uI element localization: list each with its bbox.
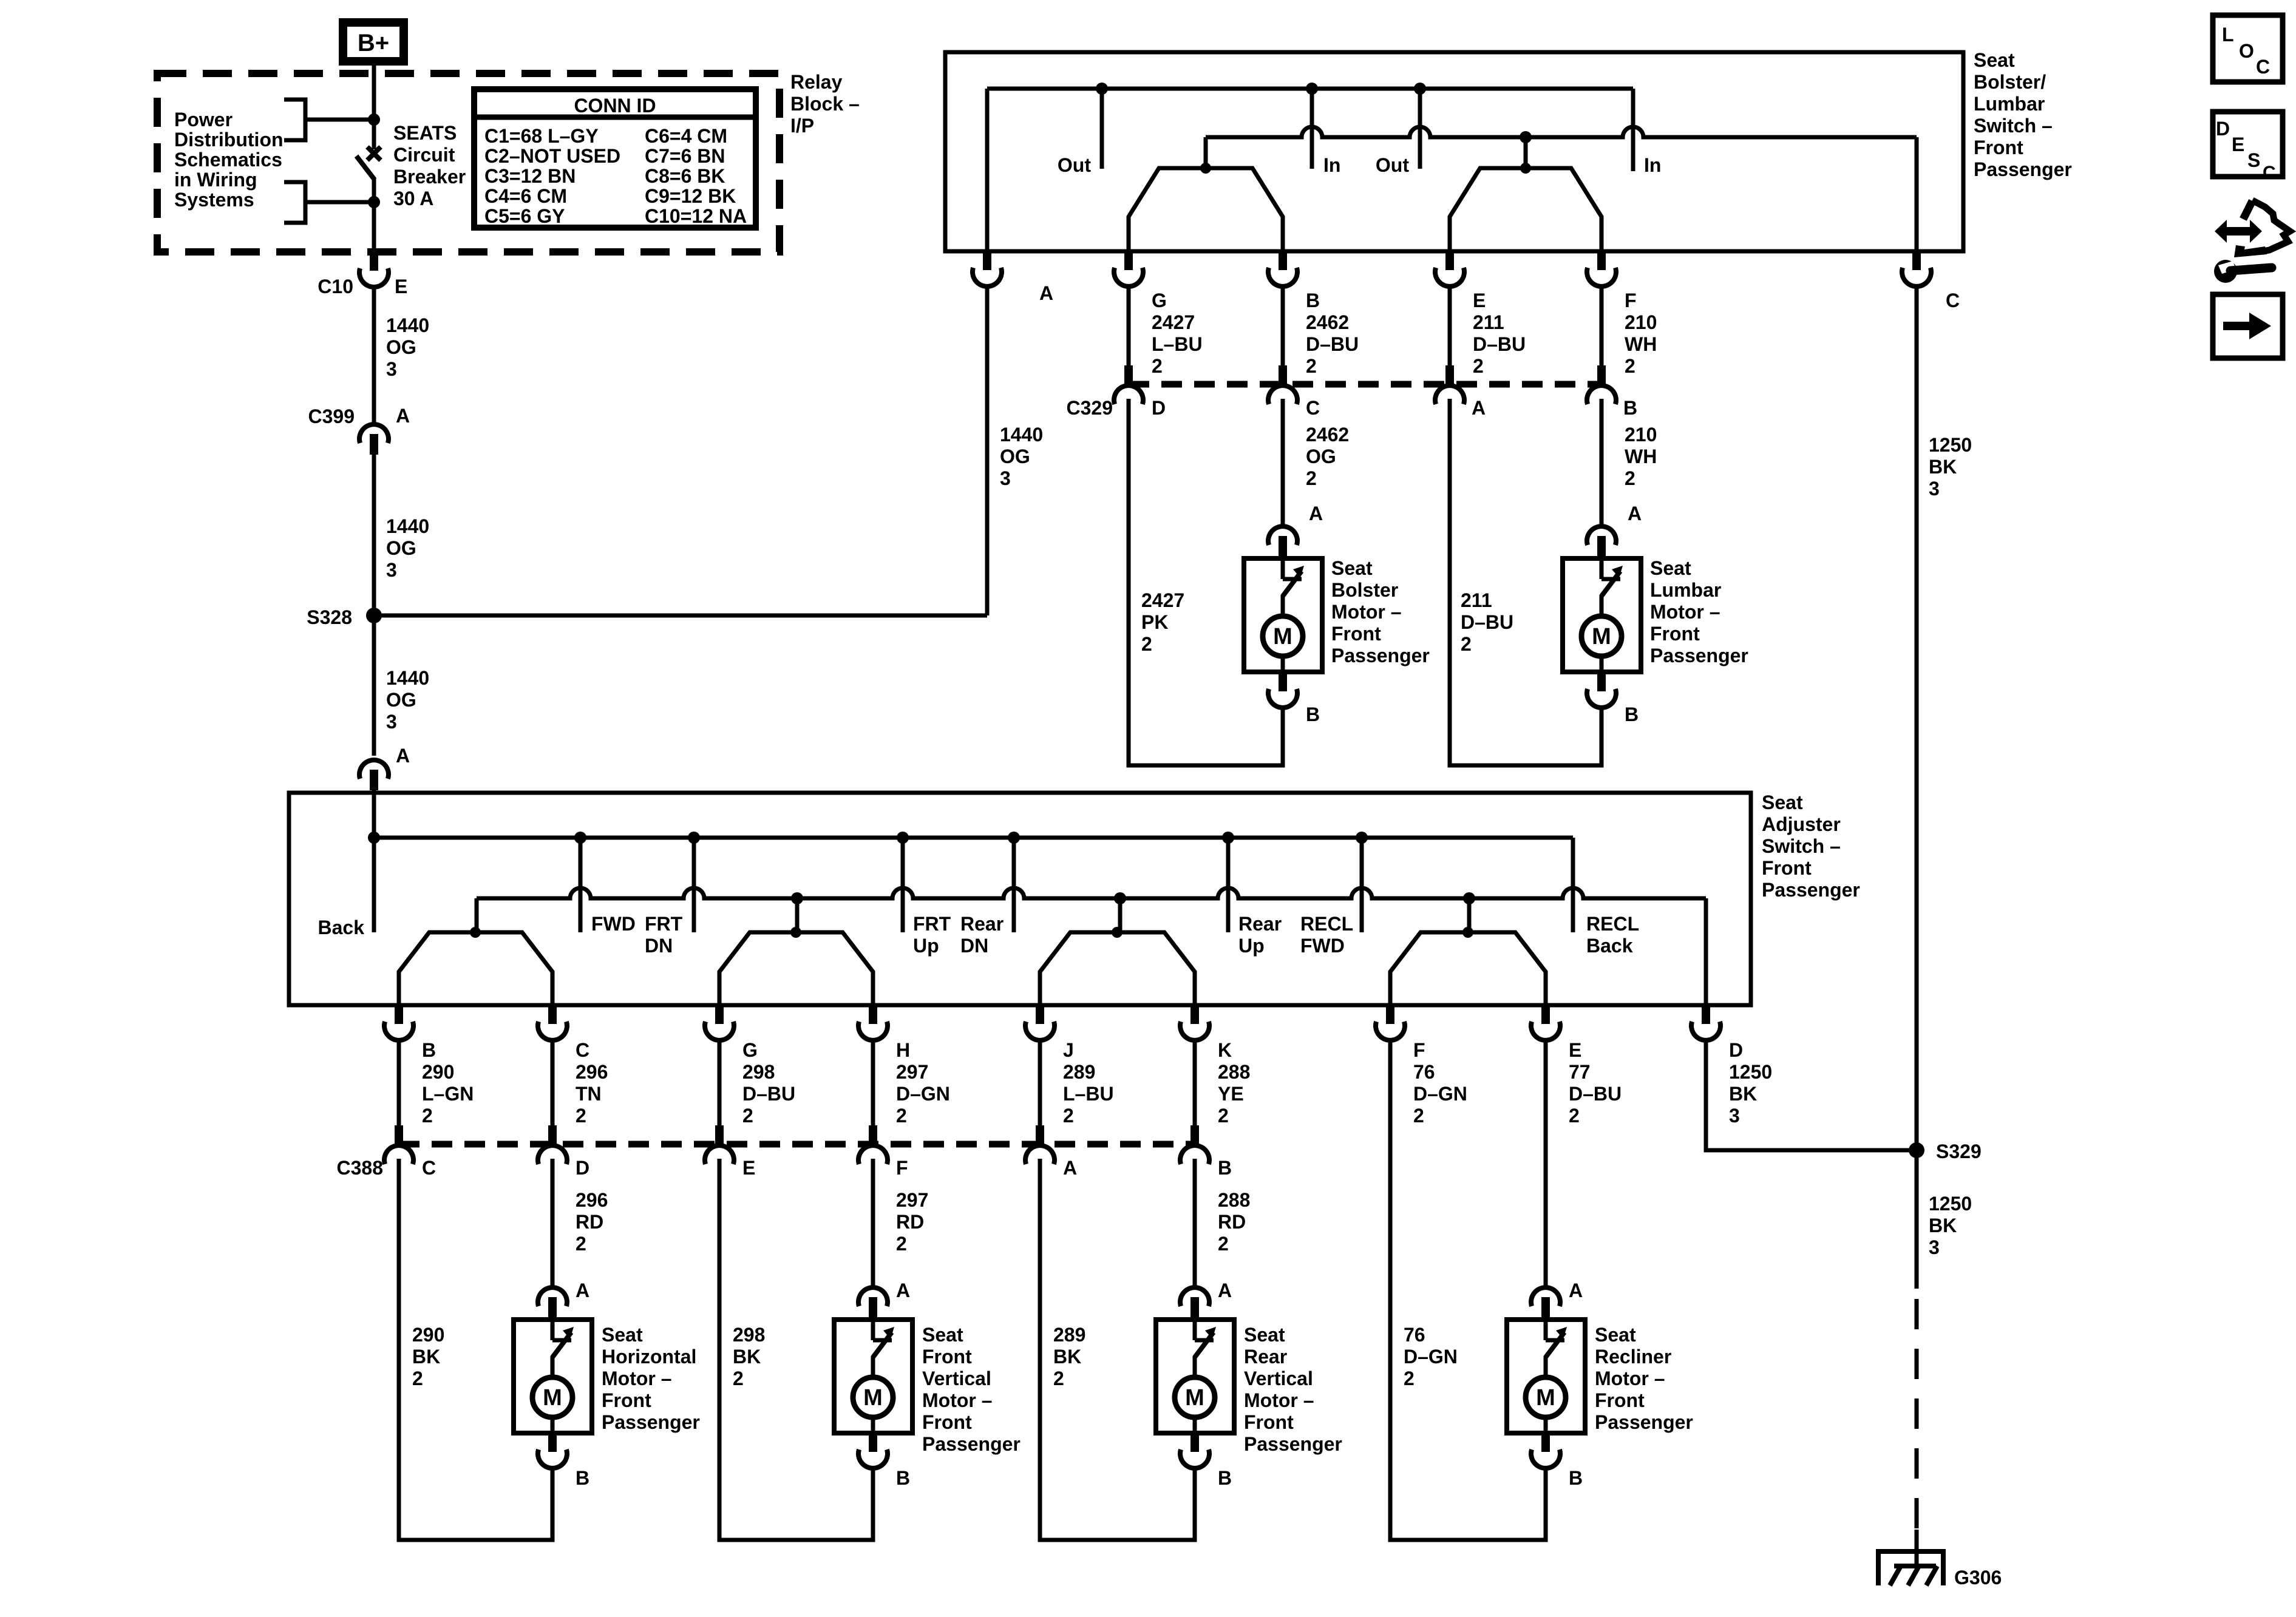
svg-text:Bolster: Bolster bbox=[1331, 579, 1398, 601]
svg-text:Front: Front bbox=[1244, 1411, 1294, 1433]
svg-text:2: 2 bbox=[896, 1233, 907, 1255]
rocker contact (horizontal) bbox=[399, 927, 552, 1005]
rocker contact (recliner) bbox=[1390, 898, 1546, 1005]
rocker contact (front vertical) bbox=[719, 898, 873, 1005]
svg-text:C: C bbox=[1946, 290, 1960, 311]
svg-text:SEATS: SEATS bbox=[393, 122, 457, 144]
svg-text:M: M bbox=[1185, 1385, 1204, 1411]
connector: seat adjuster switch pin K bbox=[1180, 1006, 1250, 1127]
svg-text:OG: OG bbox=[386, 537, 416, 559]
svg-text:2: 2 bbox=[1461, 633, 1472, 655]
splice node S328 bbox=[307, 606, 382, 628]
svg-text:Motor –: Motor – bbox=[1331, 601, 1402, 623]
wire pin to C388 B bbox=[1193, 1040, 1197, 1125]
Out stub 1 bbox=[1058, 89, 1102, 176]
svg-text:Seat: Seat bbox=[1762, 792, 1803, 813]
svg-text:M: M bbox=[1592, 624, 1611, 649]
svg-text:2: 2 bbox=[1218, 1233, 1229, 1255]
C329 pin D bbox=[1114, 365, 1166, 419]
wire pin to C388 A bbox=[1038, 1040, 1042, 1125]
svg-text:C7=6 BN: C7=6 BN bbox=[645, 145, 725, 167]
svg-text:30 A: 30 A bbox=[393, 188, 433, 209]
svg-text:A: A bbox=[1218, 1280, 1232, 1301]
C388 pin A bbox=[1025, 1125, 1077, 1179]
connector: horizontal motor pin B bbox=[538, 1434, 589, 1489]
svg-text:298: 298 bbox=[733, 1324, 765, 1346]
svg-text:289: 289 bbox=[1063, 1061, 1095, 1083]
svg-text:S329: S329 bbox=[1936, 1141, 1982, 1162]
node: breaker top junction bbox=[368, 114, 380, 126]
svg-text:DN: DN bbox=[960, 935, 988, 957]
label Seat Bolster/Lumbar Switch - Front Passenger bbox=[1974, 49, 2072, 180]
svg-text:BK: BK bbox=[412, 1346, 440, 1368]
Out stub 2 bbox=[1376, 89, 1420, 176]
svg-text:Passenger: Passenger bbox=[1244, 1433, 1342, 1455]
svg-text:O: O bbox=[2239, 40, 2254, 62]
wire 1250 BK 3 (pin C to S329) bbox=[1917, 286, 1972, 1150]
svg-text:B: B bbox=[1306, 703, 1320, 725]
svg-text:Out: Out bbox=[1058, 154, 1091, 176]
connector C399 pin A bbox=[308, 405, 410, 455]
svg-text:C: C bbox=[2263, 163, 2276, 183]
wire 1440 OG 3 (C399 to S328) bbox=[374, 455, 429, 615]
svg-text:S328: S328 bbox=[307, 606, 352, 628]
connector: seat adjuster switch pin F bbox=[1376, 1006, 1467, 1127]
wire 1250 BK 3 (pin D to S329) bbox=[1706, 1040, 1917, 1150]
svg-text:OG: OG bbox=[386, 336, 416, 358]
wire (to rear vertical motor A) bbox=[1195, 1159, 1250, 1286]
svg-text:C9=12 BK: C9=12 BK bbox=[645, 185, 736, 207]
svg-text:2: 2 bbox=[1404, 1368, 1415, 1389]
svg-text:Circuit: Circuit bbox=[393, 144, 455, 166]
svg-text:2: 2 bbox=[1218, 1105, 1229, 1127]
wire (to horizontal motor A) bbox=[552, 1159, 608, 1286]
wire breaker to C10 bbox=[372, 202, 376, 255]
svg-text:297: 297 bbox=[896, 1061, 928, 1083]
svg-text:210: 210 bbox=[1625, 424, 1657, 446]
wire pin to C388 F bbox=[871, 1040, 875, 1125]
svg-text:3: 3 bbox=[386, 711, 397, 733]
connector: lumbar motor pin B bbox=[1587, 673, 1639, 725]
svg-text:Passenger: Passenger bbox=[1331, 645, 1430, 666]
connector: lumbar motor pin A bbox=[1587, 503, 1642, 557]
svg-text:Back: Back bbox=[1586, 935, 1633, 957]
svg-text:M: M bbox=[863, 1385, 883, 1411]
wire 1250 BK 3 (S329 to G306) bbox=[1917, 1150, 1972, 1566]
svg-text:WH: WH bbox=[1625, 333, 1657, 355]
RECL Back stub (from bus corner) bbox=[1573, 838, 1639, 957]
svg-text:F: F bbox=[1413, 1039, 1425, 1061]
FWD stub bbox=[580, 838, 636, 935]
svg-text:M: M bbox=[1536, 1385, 1555, 1411]
svg-text:1440: 1440 bbox=[386, 314, 429, 336]
connector: bolster/lumbar switch pin G bbox=[1114, 252, 1143, 286]
svg-text:2: 2 bbox=[1053, 1368, 1064, 1389]
svg-text:RECL: RECL bbox=[1586, 913, 1639, 935]
svg-text:Seat: Seat bbox=[922, 1324, 963, 1346]
wiper feed line (to pin C) inside bolster/lumbar switch bbox=[1206, 127, 1917, 251]
svg-text:1250: 1250 bbox=[1729, 1061, 1772, 1083]
svg-text:BK: BK bbox=[1929, 456, 1957, 478]
connector: seat adjuster switch pin D bbox=[1691, 1006, 1772, 1127]
FRT Up stub bbox=[903, 838, 951, 957]
connector: recliner motor pin A bbox=[1531, 1280, 1583, 1318]
Rear Up stub bbox=[1228, 838, 1282, 957]
svg-text:2: 2 bbox=[1625, 467, 1635, 489]
label Power Distribution Schematics in Wiring Systems bbox=[174, 109, 284, 211]
svg-text:D: D bbox=[576, 1157, 589, 1179]
svg-text:Vertical: Vertical bbox=[922, 1368, 991, 1389]
wire 290 BK (loop to horizontal motor B) bbox=[399, 1159, 552, 1540]
label Seat horizontal Motor bbox=[602, 1324, 700, 1433]
wire pin to C388 E bbox=[718, 1040, 722, 1125]
svg-text:Horizontal: Horizontal bbox=[602, 1346, 696, 1368]
svg-text:211: 211 bbox=[1473, 311, 1504, 333]
svg-text:Switch –: Switch – bbox=[1974, 115, 2053, 137]
rocker contact (rear vertical) bbox=[1040, 898, 1195, 1005]
label Seat front vertical Motor bbox=[922, 1324, 1021, 1455]
wire 2462 D-BU 2 (pin B to C329 C) bbox=[1283, 286, 1359, 377]
connector: seat adjuster switch pin J bbox=[1025, 1006, 1114, 1127]
connector: bolster/lumbar switch pin B bbox=[1268, 252, 1297, 286]
in-line connector C329 (dashed) bbox=[1067, 384, 1602, 419]
svg-text:OG: OG bbox=[1000, 446, 1030, 467]
svg-text:OG: OG bbox=[1306, 446, 1336, 467]
connector: bolster/lumbar switch pin A bbox=[973, 252, 1053, 304]
svg-text:2427: 2427 bbox=[1152, 311, 1195, 333]
label SEATS Circuit Breaker 30 A bbox=[393, 122, 466, 209]
svg-text:E: E bbox=[742, 1157, 755, 1179]
svg-text:Front: Front bbox=[1762, 857, 1812, 879]
svg-text:Vertical: Vertical bbox=[1244, 1368, 1313, 1389]
connector: bolster/lumbar switch pin E bbox=[1435, 252, 1464, 286]
wire (to recliner motor A) bbox=[1544, 1040, 1548, 1286]
FRT DN stub bbox=[645, 838, 694, 957]
rocker feed stub (bolster) bbox=[1524, 137, 1528, 168]
svg-text:in Wiring: in Wiring bbox=[174, 169, 257, 191]
svg-text:D: D bbox=[2216, 118, 2230, 140]
connector: seat adjuster switch pin C bbox=[538, 1006, 608, 1127]
svg-text:1250: 1250 bbox=[1929, 434, 1972, 456]
svg-text:D: D bbox=[1152, 397, 1166, 419]
svg-text:3: 3 bbox=[1929, 478, 1940, 500]
svg-text:E: E bbox=[395, 276, 407, 297]
svg-text:211: 211 bbox=[1461, 589, 1492, 611]
svg-text:290: 290 bbox=[422, 1061, 454, 1083]
connector: rear vertical motor pin B bbox=[1180, 1434, 1232, 1489]
svg-text:L: L bbox=[2222, 24, 2234, 46]
svg-text:Passenger: Passenger bbox=[1974, 158, 2072, 180]
svg-text:3: 3 bbox=[386, 559, 397, 581]
svg-text:B: B bbox=[1218, 1157, 1232, 1179]
feed bus (pin A to In) inside bolster/lumbar switch bbox=[987, 83, 1633, 251]
svg-text:1250: 1250 bbox=[1929, 1193, 1972, 1215]
svg-text:289: 289 bbox=[1053, 1324, 1085, 1346]
svg-text:Distribution: Distribution bbox=[174, 129, 284, 151]
svg-text:2: 2 bbox=[1413, 1105, 1424, 1127]
svg-text:FWD: FWD bbox=[591, 913, 636, 935]
svg-text:A: A bbox=[396, 405, 410, 427]
svg-text:RD: RD bbox=[1218, 1211, 1246, 1233]
Seat rear vertical Motor - Front Passenger bbox=[1156, 1320, 1234, 1433]
svg-text:Power: Power bbox=[174, 109, 233, 131]
svg-text:A: A bbox=[1472, 397, 1486, 419]
svg-text:2: 2 bbox=[576, 1105, 586, 1127]
C329 pin C bbox=[1268, 365, 1320, 419]
svg-text:F: F bbox=[1625, 290, 1637, 311]
svg-text:OG: OG bbox=[386, 689, 416, 711]
svg-text:Motor –: Motor – bbox=[1595, 1368, 1665, 1389]
wire 211 D-BU 2 (C329 A to lumbar motor B) bbox=[1450, 399, 1601, 765]
connector: bolster motor pin A bbox=[1268, 503, 1323, 557]
svg-text:D–GN: D–GN bbox=[896, 1083, 950, 1105]
svg-text:WH: WH bbox=[1625, 446, 1657, 467]
svg-text:A: A bbox=[576, 1280, 589, 1301]
connector: seat adjuster switch pin A bbox=[359, 745, 410, 793]
LOC icon bbox=[2213, 15, 2283, 82]
svg-text:Seat: Seat bbox=[602, 1324, 643, 1346]
connector: recliner motor pin B bbox=[1531, 1434, 1583, 1489]
svg-text:TN: TN bbox=[576, 1083, 602, 1105]
svg-text:Back: Back bbox=[318, 917, 365, 938]
svg-text:2: 2 bbox=[1569, 1105, 1580, 1127]
svg-text:A: A bbox=[896, 1280, 910, 1301]
svg-text:Front: Front bbox=[1974, 137, 2023, 158]
svg-text:D–BU: D–BU bbox=[1569, 1083, 1622, 1105]
svg-text:C8=6 BK: C8=6 BK bbox=[645, 165, 725, 187]
C388 pin C bbox=[384, 1125, 436, 1179]
svg-text:2427: 2427 bbox=[1141, 589, 1184, 611]
svg-text:Front: Front bbox=[602, 1389, 651, 1411]
svg-text:1440: 1440 bbox=[1000, 424, 1043, 446]
svg-text:C5=6 GY: C5=6 GY bbox=[484, 205, 565, 227]
connector C10 pin E bbox=[318, 253, 407, 297]
svg-text:296: 296 bbox=[576, 1061, 608, 1083]
svg-text:3: 3 bbox=[386, 358, 397, 380]
svg-text:D–BU: D–BU bbox=[1461, 611, 1513, 633]
svg-text:Front: Front bbox=[1331, 623, 1381, 645]
connector: bolster/lumbar switch pin C bbox=[1902, 252, 1960, 311]
svg-text:Front: Front bbox=[1650, 623, 1700, 645]
svg-text:Adjuster: Adjuster bbox=[1762, 813, 1841, 835]
svg-text:2: 2 bbox=[1152, 355, 1163, 377]
svg-text:B: B bbox=[1569, 1467, 1583, 1489]
svg-text:E: E bbox=[1569, 1039, 1581, 1061]
wire S328 to seat bolster/lumbar switch pin A bbox=[374, 286, 1043, 615]
wire 1440 OG 3 (C10 to C399) bbox=[374, 287, 429, 423]
wiper feed line (to pin D) inside seat adjuster switch bbox=[477, 888, 1706, 1005]
svg-text:C: C bbox=[422, 1157, 436, 1179]
rocker contact (bolster) bbox=[1129, 163, 1283, 251]
svg-text:3: 3 bbox=[1000, 467, 1011, 489]
svg-text:3: 3 bbox=[1729, 1105, 1740, 1127]
connector: horizontal motor pin A bbox=[538, 1280, 589, 1318]
svg-text:CONN ID: CONN ID bbox=[574, 95, 656, 117]
svg-text:PK: PK bbox=[1141, 611, 1168, 633]
RECL FWD stub bbox=[1300, 838, 1362, 957]
svg-text:290: 290 bbox=[412, 1324, 444, 1346]
C329 pin B bbox=[1587, 365, 1637, 419]
svg-text:A: A bbox=[1569, 1280, 1583, 1301]
svg-text:Motor –: Motor – bbox=[1650, 601, 1720, 623]
svg-text:288: 288 bbox=[1218, 1061, 1250, 1083]
label Seat recliner Motor bbox=[1595, 1324, 1693, 1433]
svg-text:B: B bbox=[896, 1467, 910, 1489]
svg-text:1440: 1440 bbox=[386, 515, 429, 537]
CONN ID table bbox=[474, 89, 756, 228]
svg-text:Seat: Seat bbox=[1595, 1324, 1636, 1346]
svg-text:C4=6 CM: C4=6 CM bbox=[484, 185, 567, 207]
label Seat Bolster Motor bbox=[1331, 557, 1430, 666]
svg-text:DN: DN bbox=[645, 935, 673, 957]
svg-text:Lumbar: Lumbar bbox=[1650, 579, 1721, 601]
svg-text:Passenger: Passenger bbox=[602, 1411, 700, 1433]
svg-text:C: C bbox=[2256, 56, 2270, 78]
svg-text:298: 298 bbox=[742, 1061, 775, 1083]
wire 289 BK (loop to rear vertical motor B) bbox=[1040, 1159, 1195, 1540]
svg-text:Motor –: Motor – bbox=[922, 1389, 993, 1411]
svg-text:Seat: Seat bbox=[1244, 1324, 1285, 1346]
wire 1440 OG 3 (S328 down to seat adjuster switch) bbox=[374, 615, 429, 756]
svg-text:76: 76 bbox=[1413, 1061, 1435, 1083]
svg-text:2: 2 bbox=[1306, 355, 1317, 377]
svg-text:B: B bbox=[422, 1039, 436, 1061]
svg-text:C10: C10 bbox=[318, 276, 353, 297]
svg-text:Passenger: Passenger bbox=[1762, 879, 1860, 901]
svg-text:L–GN: L–GN bbox=[422, 1083, 474, 1105]
svg-text:Motor –: Motor – bbox=[602, 1368, 672, 1389]
svg-text:C: C bbox=[576, 1039, 589, 1061]
connector: seat adjuster switch pin E bbox=[1531, 1006, 1622, 1127]
svg-text:FRT: FRT bbox=[913, 913, 951, 935]
svg-text:Rear: Rear bbox=[960, 913, 1004, 935]
splice node S329 bbox=[1909, 1141, 1982, 1162]
svg-text:Lumbar: Lumbar bbox=[1974, 93, 2045, 115]
svg-text:288: 288 bbox=[1218, 1189, 1250, 1211]
rocker contact (lumbar) bbox=[1450, 163, 1601, 251]
svg-text:2: 2 bbox=[1306, 467, 1317, 489]
C388 pin E bbox=[705, 1125, 755, 1179]
svg-text:Systems: Systems bbox=[174, 189, 254, 211]
svg-text:G306: G306 bbox=[1954, 1567, 2002, 1588]
svg-text:BK: BK bbox=[1729, 1083, 1757, 1105]
svg-text:D: D bbox=[1729, 1039, 1743, 1061]
svg-text:Passenger: Passenger bbox=[1650, 645, 1748, 666]
svg-text:2462: 2462 bbox=[1306, 311, 1349, 333]
svg-text:A: A bbox=[1039, 282, 1053, 304]
svg-text:C1=68 L–GY: C1=68 L–GY bbox=[484, 125, 599, 147]
bracket to power distribution (bottom) bbox=[284, 182, 374, 223]
In stub 1 bbox=[1312, 89, 1340, 176]
svg-text:1440: 1440 bbox=[386, 667, 429, 689]
svg-text:RD: RD bbox=[896, 1211, 924, 1233]
svg-text:2: 2 bbox=[733, 1368, 744, 1389]
svg-text:Rear: Rear bbox=[1238, 913, 1282, 935]
wire 210 WH 2 (C329 B to lumbar motor A) bbox=[1601, 399, 1657, 525]
svg-text:In: In bbox=[1323, 154, 1340, 176]
svg-text:H: H bbox=[896, 1039, 910, 1061]
svg-text:Passenger: Passenger bbox=[1595, 1411, 1693, 1433]
hand/tool icon bbox=[2214, 200, 2290, 283]
svg-text:Bolster/: Bolster/ bbox=[1974, 71, 2046, 93]
svg-text:L–BU: L–BU bbox=[1063, 1083, 1114, 1105]
svg-text:A: A bbox=[1628, 503, 1642, 524]
svg-text:2462: 2462 bbox=[1306, 424, 1349, 446]
svg-text:C10=12 NA: C10=12 NA bbox=[645, 205, 747, 227]
Seat recliner Motor - Front Passenger bbox=[1507, 1320, 1585, 1433]
svg-text:76: 76 bbox=[1404, 1324, 1425, 1346]
svg-text:RECL: RECL bbox=[1300, 913, 1353, 935]
svg-text:77: 77 bbox=[1569, 1061, 1591, 1083]
svg-text:2: 2 bbox=[1473, 355, 1484, 377]
svg-text:C: C bbox=[1306, 397, 1320, 419]
svg-text:2: 2 bbox=[1141, 633, 1152, 655]
svg-text:B+: B+ bbox=[358, 30, 389, 56]
svg-text:B: B bbox=[1218, 1467, 1232, 1489]
connector: rear vertical motor pin A bbox=[1180, 1280, 1232, 1318]
svg-text:2: 2 bbox=[412, 1368, 423, 1389]
label Seat rear vertical Motor bbox=[1244, 1324, 1342, 1455]
wire B+ to breaker bbox=[372, 66, 376, 121]
wire pin to C388 D bbox=[551, 1040, 555, 1125]
Seat Bolster/Lumbar Switch - Front Passenger (switch box) bbox=[945, 52, 1963, 251]
svg-text:Up: Up bbox=[913, 935, 939, 957]
svg-text:D–BU: D–BU bbox=[1306, 333, 1359, 355]
wire 211 D-BU 2 (pin E to C329 A) bbox=[1450, 286, 1526, 377]
svg-text:Seat: Seat bbox=[1650, 557, 1691, 579]
connector: bolster motor pin B bbox=[1268, 673, 1320, 725]
svg-text:B: B bbox=[1623, 397, 1637, 419]
svg-text:FRT: FRT bbox=[645, 913, 683, 935]
wire 298 BK (loop to front vertical motor B) bbox=[719, 1159, 873, 1540]
svg-text:A: A bbox=[396, 745, 410, 767]
svg-text:K: K bbox=[1218, 1039, 1232, 1061]
connector: front vertical motor pin A bbox=[858, 1280, 910, 1318]
label Seat Lumbar Motor bbox=[1650, 557, 1748, 666]
svg-text:3: 3 bbox=[1929, 1236, 1940, 1258]
svg-text:Schematics: Schematics bbox=[174, 149, 282, 171]
svg-text:Motor –: Motor – bbox=[1244, 1389, 1314, 1411]
svg-text:2: 2 bbox=[896, 1105, 907, 1127]
svg-text:D–BU: D–BU bbox=[1473, 333, 1526, 355]
svg-text:B: B bbox=[1625, 703, 1639, 725]
svg-text:Front: Front bbox=[922, 1346, 972, 1368]
Rear DN stub bbox=[960, 838, 1014, 957]
svg-text:297: 297 bbox=[896, 1189, 928, 1211]
svg-text:C329: C329 bbox=[1067, 397, 1113, 419]
svg-text:E: E bbox=[2232, 134, 2244, 155]
Seat front vertical Motor - Front Passenger bbox=[834, 1320, 912, 1433]
svg-text:B: B bbox=[576, 1467, 589, 1489]
wire 2427 PK 2 (C329 D to bolster motor B) bbox=[1129, 399, 1283, 765]
svg-text:Passenger: Passenger bbox=[922, 1433, 1021, 1455]
svg-text:Rear: Rear bbox=[1244, 1346, 1287, 1368]
svg-text:BK: BK bbox=[1929, 1215, 1957, 1236]
svg-text:210: 210 bbox=[1625, 311, 1657, 333]
svg-text:E: E bbox=[1473, 290, 1486, 311]
svg-text:Seat: Seat bbox=[1331, 557, 1373, 579]
circuit breaker CB (SEATS 30 A) bbox=[356, 120, 381, 202]
C329 pin A bbox=[1435, 365, 1486, 419]
svg-text:A: A bbox=[1063, 1157, 1077, 1179]
svg-text:Recliner: Recliner bbox=[1595, 1346, 1671, 1368]
svg-text:D–GN: D–GN bbox=[1404, 1346, 1458, 1368]
svg-text:D–GN: D–GN bbox=[1413, 1083, 1467, 1105]
svg-text:M: M bbox=[543, 1385, 562, 1411]
svg-text:Relay: Relay bbox=[790, 71, 843, 93]
relay block dashed box bbox=[157, 73, 779, 252]
connector: front vertical motor pin B bbox=[858, 1434, 910, 1489]
